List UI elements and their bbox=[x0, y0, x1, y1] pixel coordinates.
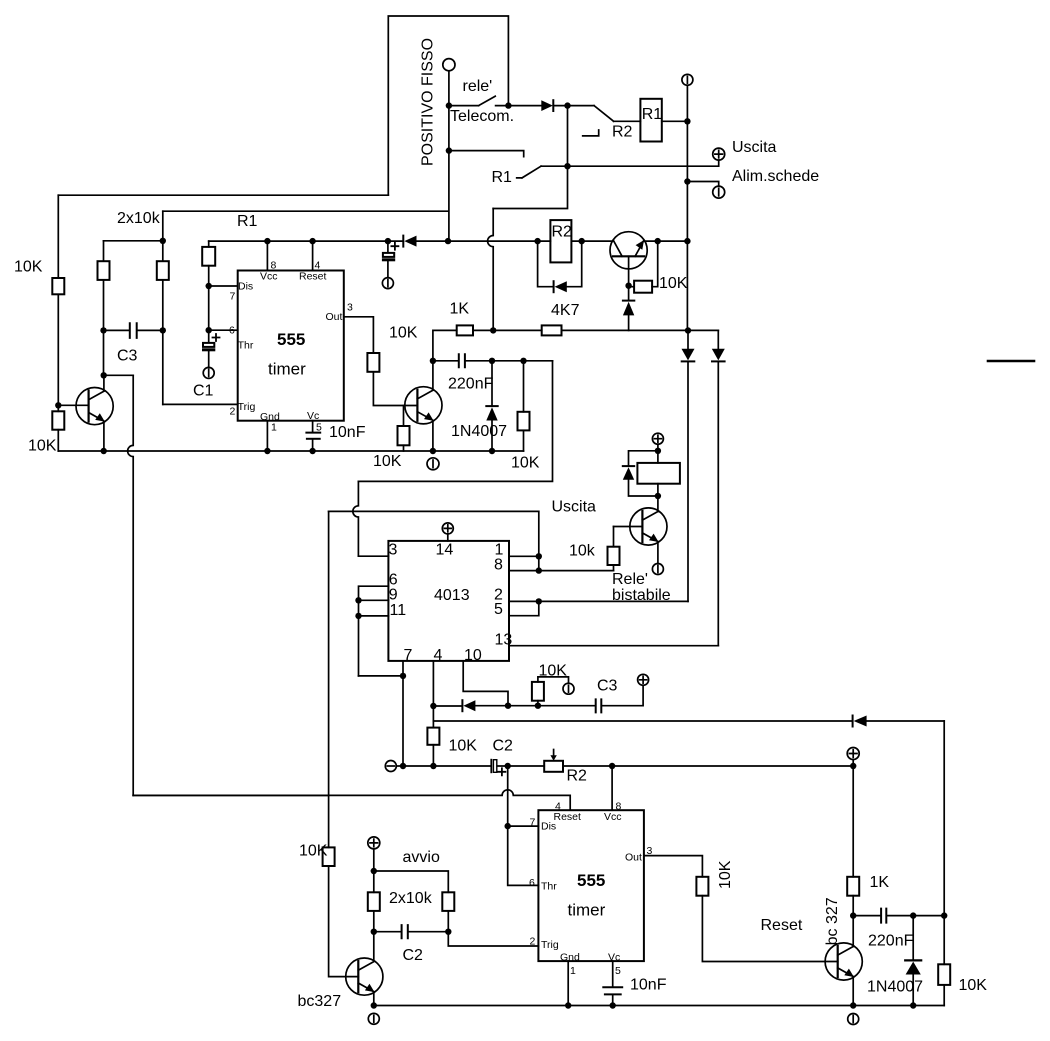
pin 4 stub bbox=[432, 661, 434, 728]
pin 3 Out stub 555#1 bbox=[344, 317, 374, 353]
svg-text:R2: R2 bbox=[552, 224, 573, 241]
pin 13 stub bbox=[509, 645, 718, 647]
svg-text:10nF: 10nF bbox=[630, 977, 667, 994]
node Q3 base bbox=[625, 283, 631, 289]
terminal C1 ground bbox=[203, 367, 214, 378]
svg-text:10K: 10K bbox=[14, 259, 43, 276]
svg-text:Telecom.: Telecom. bbox=[450, 108, 514, 125]
node pin11 bbox=[355, 613, 361, 619]
svg-text:avvio: avvio bbox=[403, 849, 440, 866]
node pin4 at C2 wire bbox=[430, 763, 436, 769]
svg-text:Thr: Thr bbox=[238, 339, 254, 351]
IC 555 #2 box bbox=[538, 810, 644, 961]
diode bistable pointing up bbox=[623, 465, 634, 467]
svg-text:4013: 4013 bbox=[434, 587, 470, 604]
wire 2x10k left resistor chain x=103.5 bbox=[103, 241, 105, 375]
capacitor C1 electrolytic bbox=[208, 330, 210, 343]
node avvio split bbox=[371, 868, 377, 874]
wire from 220nF net down right side bbox=[358, 361, 552, 482]
svg-text:Gnd: Gnd bbox=[560, 951, 580, 963]
pin 1 stub bbox=[509, 555, 539, 557]
wire long vertical x=133 with hop over rail bbox=[128, 375, 134, 795]
node Q1 collector bbox=[101, 372, 107, 378]
resistor 2x10k left bottom bbox=[368, 892, 380, 911]
node pin10 at diode wire bbox=[505, 703, 511, 709]
wire R1 bottom to Dis bbox=[208, 266, 210, 331]
wire 4K7 to double diodes bbox=[562, 329, 719, 331]
node R1 coil right bbox=[684, 118, 690, 124]
wire bottom of x=133 to Reset wire bbox=[133, 794, 328, 796]
node Q2 emitter rail bbox=[430, 448, 436, 454]
svg-text:2x10k: 2x10k bbox=[117, 210, 161, 227]
terminal ground 10K bbox=[563, 683, 574, 694]
wire R1 coil to minus rail bbox=[662, 120, 688, 122]
wire right edge vertical x=944 bbox=[943, 721, 945, 1006]
diode R2 bypass pointing left bbox=[553, 281, 555, 292]
wire base Q1 bbox=[58, 404, 88, 406]
resistor 2x10k right bbox=[157, 261, 169, 280]
node Dis bbox=[206, 283, 212, 289]
svg-text:Vc: Vc bbox=[608, 951, 620, 963]
node right vertical at 220nF bbox=[941, 912, 947, 918]
resistor 10K lower-left bbox=[52, 411, 64, 429]
wire pin3 4013 bbox=[358, 555, 388, 557]
pin 2 stub bbox=[509, 600, 539, 602]
wire Q4 emitter to rail bbox=[852, 977, 854, 1006]
transistor Q1 (PNP left) bbox=[76, 388, 113, 425]
capacitor C2 electrolytic mid bbox=[490, 760, 492, 773]
svg-text:bc327: bc327 bbox=[298, 993, 342, 1010]
node C2 right bbox=[445, 929, 451, 935]
svg-text:7: 7 bbox=[230, 290, 236, 302]
svg-text:10K: 10K bbox=[449, 738, 478, 755]
pin 2 Trig wire bbox=[448, 932, 538, 946]
pin 8 Vcc stub 555#2 bbox=[611, 766, 613, 810]
wire Q6 collector bbox=[373, 932, 375, 962]
node Q2 collector bbox=[430, 358, 436, 364]
node Dis bbox=[505, 823, 511, 829]
svg-text:5: 5 bbox=[316, 422, 322, 434]
svg-text:C3: C3 bbox=[597, 678, 618, 695]
node 1N4007 bottom top bbox=[910, 912, 916, 918]
relay coil bistable bbox=[637, 463, 680, 484]
wire right vertical x=687 bbox=[686, 85, 688, 330]
wire C2 net y=766 bbox=[396, 765, 853, 767]
contact mark R2 switch bbox=[583, 130, 599, 136]
bottom rail of 555#1 section bbox=[58, 450, 523, 452]
pin 7 stub bbox=[402, 661, 404, 766]
wire C2 bottom bbox=[374, 931, 449, 933]
wire y=721 pin4 to right side bbox=[433, 720, 944, 722]
switch R2 top bbox=[568, 106, 614, 122]
svg-text:3: 3 bbox=[389, 542, 398, 559]
transistor Q3 (rotated, base down) bbox=[610, 232, 647, 269]
svg-text:555: 555 bbox=[277, 330, 305, 349]
node pin8 bbox=[536, 567, 542, 573]
wire Q1 collector up bbox=[103, 375, 105, 391]
pin 6 stub bbox=[359, 586, 389, 676]
svg-text:10K: 10K bbox=[299, 843, 328, 860]
pin 8 stub bbox=[509, 570, 539, 572]
node Thr / C1 bbox=[206, 327, 212, 333]
svg-text:Trig: Trig bbox=[238, 401, 256, 413]
node 10K top bbox=[520, 358, 526, 364]
svg-text:10k: 10k bbox=[569, 543, 596, 560]
wire Q5 emitter to ground terminal bbox=[657, 542, 659, 564]
svg-text:10K: 10K bbox=[373, 453, 402, 470]
svg-text:1N4007: 1N4007 bbox=[867, 979, 923, 996]
IC 4013 box bbox=[388, 541, 509, 661]
node on x=567 vertical bbox=[564, 163, 570, 169]
resistor 10K Q3 base-emitter bbox=[629, 286, 635, 288]
wire pin1 net from hop vertical bbox=[329, 511, 539, 570]
node alim minus tap bbox=[684, 178, 690, 184]
node pin4 diode wire bbox=[430, 703, 436, 709]
svg-text:6: 6 bbox=[229, 325, 235, 337]
wire avvio node bbox=[373, 849, 375, 892]
wire Trig 555#1 bbox=[163, 403, 238, 405]
terminal POSITIVO FISSO bbox=[443, 59, 455, 71]
wire uscita plus bbox=[541, 160, 719, 166]
relay coil R1 bbox=[640, 99, 661, 142]
node 1N4007 bottom rail bbox=[910, 1002, 916, 1008]
svg-text:rele': rele' bbox=[463, 78, 493, 95]
wire 4013 reset diode net bbox=[433, 685, 643, 706]
wire top joining 2x10k pair bbox=[104, 240, 163, 242]
resistor 10K under Q2 base bbox=[398, 426, 410, 445]
bottom rail bbox=[374, 1005, 944, 1007]
wire R1 resistor top corner bbox=[208, 241, 210, 247]
relay coil R2 bbox=[550, 220, 571, 262]
transistor Q4 bc327 right bbox=[825, 943, 862, 980]
svg-text:220nF: 220nF bbox=[448, 376, 494, 393]
switch R1 blade bbox=[517, 166, 541, 178]
IC 555 #1 box bbox=[238, 271, 344, 421]
resistor 2x10k right bottom bbox=[442, 892, 454, 911]
node 1N4007 top bbox=[489, 358, 495, 364]
wire vertical x=567 down bbox=[493, 106, 567, 209]
svg-text:555: 555 bbox=[577, 871, 605, 890]
svg-text:9: 9 bbox=[389, 586, 398, 603]
wire 2x10k right chain x=162.8 bbox=[162, 211, 164, 404]
wire long vertical x=328 down to bc327 bbox=[329, 511, 359, 976]
svg-text:10K: 10K bbox=[511, 455, 540, 472]
node Reset stub bbox=[309, 238, 315, 244]
pin 5 Vc stub 555#2 bbox=[612, 961, 614, 987]
svg-text:11: 11 bbox=[390, 602, 407, 619]
svg-text:8: 8 bbox=[494, 556, 503, 573]
svg-text:10: 10 bbox=[464, 647, 482, 664]
node after D1 bbox=[564, 102, 570, 108]
terminal plus reset net bbox=[847, 748, 859, 760]
svg-text:Alim.schede: Alim.schede bbox=[732, 168, 819, 185]
diode D2 pointing left bbox=[402, 236, 404, 247]
wire coil to Q5 collector bbox=[657, 484, 659, 512]
node hop vertical bottom bbox=[490, 327, 496, 333]
node cap 388 bbox=[385, 238, 391, 244]
svg-text:10K: 10K bbox=[28, 438, 57, 455]
capacitor 10nF 555#1 bbox=[306, 432, 320, 434]
resistor 10K right bottom bbox=[938, 964, 950, 985]
wire Out resistor to Q2 base bbox=[373, 372, 417, 406]
svg-text:2x10k: 2x10k bbox=[389, 890, 433, 907]
wire Q5 base bbox=[614, 526, 643, 528]
wire right resistor to C2 node bbox=[447, 911, 449, 932]
svg-text:timer: timer bbox=[268, 360, 306, 379]
capacitor 220nF top bbox=[459, 354, 465, 367]
svg-text:4K7: 4K7 bbox=[551, 302, 580, 319]
pin 9 stub bbox=[359, 599, 389, 601]
wire left resistor to C2 node bbox=[373, 911, 375, 932]
wire Q2 collector up bbox=[432, 361, 434, 390]
node reset plus bbox=[850, 763, 856, 769]
capacitor C3 bbox=[130, 323, 137, 338]
resistor 2x10k left bbox=[98, 261, 110, 280]
svg-text:2: 2 bbox=[530, 935, 536, 947]
pin 8 Vcc stub 555#1 bbox=[266, 241, 268, 270]
capacitor electrolytic at x=388 bbox=[387, 241, 389, 253]
svg-text:Reset: Reset bbox=[761, 917, 803, 934]
top box outline bbox=[388, 16, 508, 195]
terminal ground Q4 bbox=[848, 1014, 859, 1025]
wire Q2 emitter down bbox=[432, 420, 434, 451]
wire plus to coil bbox=[657, 444, 659, 463]
wire pin2 to diode vertical bbox=[539, 600, 688, 602]
svg-text:Gnd: Gnd bbox=[260, 411, 280, 423]
svg-text:Dis: Dis bbox=[238, 280, 253, 292]
svg-text:C2: C2 bbox=[403, 947, 424, 964]
svg-text:5: 5 bbox=[615, 965, 621, 977]
wire top-left horizontal net to top box bbox=[58, 194, 388, 196]
svg-text:5: 5 bbox=[494, 601, 503, 618]
svg-text:C3: C3 bbox=[117, 348, 138, 365]
wire alim minus bbox=[687, 182, 718, 187]
svg-text:C1: C1 bbox=[193, 383, 214, 400]
node Q3 emitter wire bbox=[655, 238, 661, 244]
node C3 left bbox=[100, 327, 106, 333]
terminal plus relay bistable bbox=[652, 433, 663, 444]
node diode 1 top bbox=[685, 327, 691, 333]
wire Dis/Thr vertical x=508 bbox=[508, 766, 539, 885]
node top box right bbox=[505, 102, 511, 108]
svg-text:Trig: Trig bbox=[541, 939, 559, 951]
wire Q3 base down bbox=[628, 256, 630, 285]
transistor Q2 bbox=[405, 387, 442, 424]
diode on y=721 pointing left bbox=[852, 716, 854, 727]
svg-text:POSITIVO FISSO: POSITIVO FISSO bbox=[420, 38, 437, 166]
diode 1N4007 bottom pointing up bbox=[912, 916, 914, 960]
wire pins 6-9-11 to pin7 bbox=[359, 675, 404, 677]
resistor 10K right of 1N4007 bbox=[523, 361, 525, 412]
svg-text:Out: Out bbox=[625, 852, 642, 864]
svg-text:Thr: Thr bbox=[541, 881, 557, 893]
terminal ground Q5 bbox=[652, 564, 663, 575]
svg-text:R2: R2 bbox=[567, 768, 588, 785]
wire Thr 555#1 bbox=[209, 329, 238, 331]
svg-text:timer: timer bbox=[568, 901, 606, 920]
svg-text:Reset: Reset bbox=[299, 271, 327, 283]
diode pointing left on pin4 wire bbox=[461, 700, 463, 711]
wire R2 bypass diode loop bbox=[538, 241, 582, 287]
terminal plus Uscita bbox=[713, 148, 725, 160]
wire feedback top y=211 bbox=[163, 210, 448, 212]
resistor 1K bottom bbox=[847, 877, 859, 896]
node pin2 bbox=[536, 598, 542, 604]
preset R2 bbox=[544, 761, 563, 772]
node R2 coil right bbox=[579, 238, 585, 244]
node R2 coil left bbox=[534, 238, 540, 244]
node positivo vertical bbox=[445, 238, 451, 244]
switch R1 fixed contact bbox=[449, 151, 524, 157]
svg-text:Out: Out bbox=[326, 311, 343, 323]
wire 220nF bottom net bbox=[853, 915, 944, 917]
wire C3 right bbox=[138, 329, 163, 331]
svg-text:1: 1 bbox=[570, 965, 576, 977]
terminal plus 4013 pin14 bbox=[442, 523, 453, 534]
svg-text:R1: R1 bbox=[237, 213, 258, 230]
node C3 right bbox=[160, 327, 166, 333]
node pin1 bbox=[536, 553, 542, 559]
svg-text:Vcc: Vcc bbox=[604, 811, 622, 823]
node 10K tap on diode wire bbox=[535, 703, 541, 709]
node Q1 emitter rail bbox=[101, 448, 107, 454]
terminal minus C2 net bbox=[385, 761, 396, 772]
pin 1 Gnd stub 555#2 bbox=[567, 961, 569, 1005]
wire vertical to 4013 pin3 with hop bbox=[353, 481, 359, 556]
terminal ground under cap 388 bbox=[382, 278, 393, 289]
svg-text:1K: 1K bbox=[450, 301, 470, 318]
svg-text:3: 3 bbox=[347, 302, 353, 314]
node 1N4007 bottom rail bbox=[489, 448, 495, 454]
node Q6 emitter bbox=[371, 1002, 377, 1008]
wire avvio to right branch bbox=[374, 871, 449, 892]
node Vcc stub bbox=[264, 238, 270, 244]
svg-text:10K: 10K bbox=[959, 977, 988, 994]
resistor 10K on Out 555#2 bbox=[696, 877, 708, 896]
pin 3 Out stub 555#2 bbox=[644, 856, 703, 877]
resistor 10K pin4 bbox=[427, 728, 439, 745]
node Q4 collector bbox=[850, 912, 856, 918]
svg-text:R1: R1 bbox=[492, 169, 513, 186]
transistor Q6 bc327 bbox=[346, 958, 383, 995]
svg-text:Uscita: Uscita bbox=[732, 139, 777, 156]
svg-text:6: 6 bbox=[529, 877, 535, 889]
node C2 left bbox=[371, 929, 377, 935]
terminal plus C3 bbox=[638, 674, 649, 685]
diode D5 down x=688 bbox=[687, 331, 689, 350]
svg-text:4: 4 bbox=[315, 259, 321, 271]
svg-text:R2: R2 bbox=[612, 124, 633, 141]
svg-text:220nF: 220nF bbox=[868, 932, 914, 949]
resistor 4K7 bbox=[542, 325, 562, 335]
wire hop vertical x=493 over Vcc wire bbox=[488, 209, 494, 331]
wire left rail vertical x=58 bbox=[57, 195, 59, 451]
resistor 10K on Out bbox=[367, 353, 379, 372]
node base Q1 bbox=[55, 402, 61, 408]
svg-text:10K: 10K bbox=[539, 663, 568, 680]
pin 1 Gnd stub 555#1 bbox=[266, 421, 268, 451]
diode D1 pointing right bbox=[541, 100, 553, 111]
wire collector to long vertical bbox=[104, 374, 134, 376]
svg-text:10K: 10K bbox=[659, 275, 688, 292]
wire Q2 collector to 1K net bbox=[433, 330, 457, 360]
switch rele' Telecom bbox=[449, 96, 541, 105]
pin 5 stub bbox=[509, 601, 539, 615]
node switch pivot bbox=[446, 102, 452, 108]
node coil top bbox=[655, 448, 661, 454]
wire 10K under Q2 base bbox=[403, 406, 405, 427]
wire Q6 emitter to rail bbox=[373, 992, 375, 1006]
svg-text:R1: R1 bbox=[642, 106, 663, 123]
node Vcc stub 555#2 bbox=[609, 763, 615, 769]
wire plus to C2 net bbox=[852, 760, 854, 767]
wire Reset net y=795 with hop bbox=[133, 790, 570, 810]
svg-text:1K: 1K bbox=[870, 874, 890, 891]
svg-text:C2: C2 bbox=[493, 738, 514, 755]
resistor R1 (555#1 timing) bbox=[202, 247, 215, 266]
svg-text:Rele': Rele' bbox=[612, 571, 648, 588]
svg-text:1N4007: 1N4007 bbox=[451, 423, 507, 440]
terminal ground Q6 bbox=[368, 1013, 379, 1024]
svg-text:10K: 10K bbox=[717, 860, 734, 889]
node 2x10k right top bbox=[160, 238, 166, 244]
wire Out 10K to Q4 base bbox=[702, 896, 837, 962]
diode 1N4007 top section bbox=[491, 361, 493, 406]
capacitor C3 bottom bbox=[596, 699, 602, 712]
svg-text:4: 4 bbox=[434, 647, 443, 664]
svg-text:1: 1 bbox=[271, 422, 277, 434]
capacitor C2 bottom bbox=[402, 925, 408, 938]
wire C3 left bbox=[104, 329, 129, 331]
diode D6 down x=718 bbox=[717, 330, 719, 349]
capacitor 10nF 555#2 bbox=[603, 986, 622, 988]
wire Vcc net y=241 bbox=[209, 240, 688, 242]
node R1 switch fixed contact bbox=[446, 147, 452, 153]
terminal ground Q2 emitter bbox=[427, 458, 439, 470]
wire switch to R1 coil bbox=[614, 120, 641, 122]
pin 7 Dis stub bbox=[508, 825, 539, 827]
resistor 10K to ground terminal bbox=[537, 701, 539, 706]
wire 1K to Q4 collector node bbox=[852, 896, 854, 916]
wire Dis 555#1 bbox=[209, 285, 238, 287]
wire bistable diode loop bbox=[629, 451, 658, 496]
svg-text:Vc: Vc bbox=[307, 410, 319, 422]
diode under Q3 pointing up bbox=[628, 286, 630, 301]
pin 5 Vc stub 555#1 bbox=[312, 421, 314, 433]
terminal plus avvio bbox=[368, 837, 380, 849]
wire Q4 collector vertical bbox=[852, 916, 854, 947]
svg-text:10K: 10K bbox=[389, 325, 418, 342]
svg-text:7: 7 bbox=[530, 817, 536, 829]
wire 220nF net y=360.8 bbox=[433, 360, 553, 362]
svg-text:Uscita: Uscita bbox=[552, 499, 597, 516]
isolated dash top right bbox=[988, 360, 1034, 363]
resistor 10k Q5 base bbox=[613, 527, 615, 547]
svg-text:Vcc: Vcc bbox=[260, 270, 278, 282]
resistor 1K bbox=[457, 325, 473, 335]
pin 11 stub bbox=[359, 615, 389, 617]
svg-text:Dis: Dis bbox=[541, 821, 556, 833]
wire 1K to 4K7 bbox=[473, 329, 542, 331]
wire Q1 emitter down bbox=[103, 421, 105, 451]
terminal minus top right bbox=[682, 74, 693, 85]
pin 4 Reset stub 555#1 bbox=[312, 241, 314, 270]
resistor 10k bc327 base bbox=[323, 847, 335, 866]
node Q4 emitter bbox=[850, 1002, 856, 1008]
svg-text:bc 327: bc 327 bbox=[824, 897, 841, 945]
node at Vcc wire bbox=[684, 238, 690, 244]
resistor 10K upper-left bbox=[52, 278, 64, 294]
